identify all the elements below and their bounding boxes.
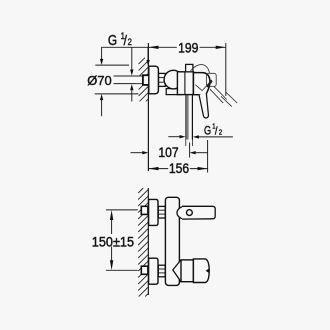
body lower shelf (166, 89, 182, 95)
bottom escutcheon (149, 258, 158, 284)
bottom supply stub (141, 266, 148, 274)
cylinder end marker (206, 268, 210, 273)
top union nut (158, 206, 165, 218)
dimension 150±15 (106, 210, 138, 270)
outlet size arrows (168, 136, 233, 138)
leader arrow to nipple top (131, 47, 133, 70)
cartridge cap with lever (solid position) (193, 73, 210, 95)
dimension Ø70 (95, 47, 139, 116)
outlet cylinder (193, 259, 209, 283)
outlet pipe (G 1/2 down) (185, 95, 187, 140)
supply nipple extension lines (114, 76, 143, 84)
bottom union nut (158, 265, 165, 277)
dimension 156 (148, 140, 207, 173)
top escutcheon (149, 199, 158, 225)
supply nipple tube mask (136, 77, 143, 84)
svg-text:156: 156 (169, 161, 189, 177)
svg-text:/: / (124, 32, 128, 48)
outlet cone (front view) (173, 260, 181, 282)
svg-text:G: G (108, 32, 117, 49)
svg-text:2: 2 (128, 36, 132, 47)
wall face line (top view) (147, 43, 149, 171)
svg-text:107: 107 (158, 144, 178, 160)
svg-text:G: G (204, 125, 211, 137)
wall hatch (front view) (138, 188, 148, 297)
leader arrow to flange top (on wall line) (147, 47, 149, 60)
dimension 199 (148, 43, 225, 96)
svg-text:150±15: 150±15 (92, 234, 134, 249)
dimension 107 (131, 152, 143, 154)
lever grip (solid position) (199, 93, 208, 118)
lever arm hole (187, 210, 193, 216)
mixer block (177, 72, 193, 95)
lever phantom (raised position, thin lines) (191, 65, 238, 107)
union nut at wall (143, 75, 150, 85)
wall hatch (top view) (139, 58, 149, 102)
lever arm (front view) (182, 206, 215, 219)
lever pivot dark wedge (206, 80, 212, 88)
escutcheon flange (top view) (149, 66, 159, 94)
connection nut (top view) (159, 73, 166, 86)
wall face line (front view) (147, 188, 149, 295)
svg-text:Ø70: Ø70 (87, 73, 111, 88)
svg-text:199: 199 (178, 40, 198, 56)
lever hub arc (front view) (177, 206, 185, 219)
ball joint (164, 70, 183, 89)
outlet collar (181, 260, 193, 282)
svg-text:/: / (215, 126, 218, 138)
top knob (186, 64, 193, 71)
body column (front view) (165, 197, 179, 285)
top supply stub (141, 206, 148, 214)
leader arrow up to nipple bottom (131, 90, 133, 101)
break marks on phantom grip (221, 96, 232, 106)
svg-text:2: 2 (219, 129, 222, 137)
